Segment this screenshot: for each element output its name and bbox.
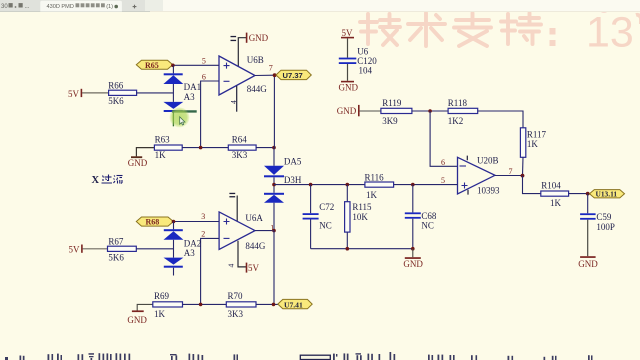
svg-text:13: 13 <box>586 9 634 57</box>
ground dashes above U6A (pin 8) <box>229 193 237 221</box>
svg-text:U7.37: U7.37 <box>283 71 303 80</box>
svg-text:R66: R66 <box>108 81 124 91</box>
ground GND (R119) <box>337 105 381 116</box>
capacitor C72 <box>303 185 335 249</box>
net label U7.41 <box>278 299 312 309</box>
svg-text:R70: R70 <box>228 291 244 301</box>
wire pin3 U6A <box>174 221 220 223</box>
wire R69-R70 <box>183 303 227 305</box>
junction node R70/U7.41/main bus <box>272 303 276 307</box>
svg-text:R67: R67 <box>108 236 124 246</box>
svg-text:R118: R118 <box>448 98 468 108</box>
resistor R67 <box>108 236 137 262</box>
svg-text:5V: 5V <box>69 245 81 255</box>
clipped schematic row at bottom edge <box>5 352 593 360</box>
svg-text:R117: R117 <box>527 129 547 139</box>
op-amp U6A <box>219 212 266 251</box>
resistor R115 (vertical) <box>345 185 372 249</box>
watermark 技术支持：13 <box>360 13 541 46</box>
svg-text:10393: 10393 <box>477 186 500 196</box>
svg-text:GND: GND <box>337 106 357 116</box>
wire bus D3H diode to U6A output <box>273 203 275 231</box>
power port 5V below U6A (pin 4) <box>227 241 260 273</box>
svg-text:U6A: U6A <box>245 213 263 223</box>
svg-text:6: 6 <box>441 158 445 167</box>
wire pin6 U20B from R119 junction <box>430 111 457 166</box>
svg-text:5V: 5V <box>342 28 354 38</box>
svg-text:5: 5 <box>202 57 206 66</box>
op-amp U20B <box>458 156 501 196</box>
svg-text:R64: R64 <box>232 135 248 145</box>
capacitor C59 <box>580 194 615 232</box>
power port 5V (C120) <box>341 28 354 57</box>
wire D3H net to U20B pin5 <box>274 184 365 186</box>
wire R64 to bus <box>256 147 274 149</box>
svg-text:1K2: 1K2 <box>448 116 464 126</box>
capacitor C68 <box>405 185 437 249</box>
resistor R119 <box>381 98 412 126</box>
junction node R69/R70/pin2 bus <box>199 303 203 307</box>
svg-text:A3: A3 <box>184 92 195 102</box>
diode DA2 (dual, A3) <box>164 222 202 276</box>
resistor R70 <box>226 291 256 319</box>
diode DA1 (dual, A3) <box>163 65 201 126</box>
svg-text:5K6: 5K6 <box>108 252 124 262</box>
power port 5V (R66) <box>68 89 109 99</box>
resistor R117 (vertical) <box>520 128 546 158</box>
svg-text:100P: 100P <box>596 222 615 232</box>
net label R65 <box>136 60 173 70</box>
wire R119-R118 <box>412 110 448 112</box>
junction node R64/main bus <box>272 146 276 150</box>
diode DA5 <box>264 156 302 177</box>
svg-text:5K6: 5K6 <box>108 96 124 106</box>
svg-text:3: 3 <box>201 212 205 221</box>
svg-text:10K: 10K <box>352 212 368 222</box>
svg-text:2: 2 <box>201 230 205 239</box>
resistor R69 <box>153 291 183 319</box>
wire R117 bottom to output node <box>522 157 525 175</box>
junction node R65/pin5 <box>171 64 175 68</box>
resistor R118 <box>448 98 478 126</box>
wire pin7 U20B output <box>495 175 523 177</box>
diode D3H lower (of DA5 pair) <box>264 193 284 203</box>
svg-text:C72: C72 <box>319 202 334 212</box>
wire R70 to U7.41 <box>256 303 278 305</box>
svg-text:R65: R65 <box>145 61 159 70</box>
wire R63-R64 <box>182 147 228 149</box>
svg-text:5V: 5V <box>68 89 80 99</box>
wire pin1 U6A output <box>255 230 274 232</box>
op-amp U6B <box>219 55 267 95</box>
svg-text:R69: R69 <box>154 291 170 301</box>
wire R104 to U13.11 <box>569 193 590 195</box>
svg-text:U7.41: U7.41 <box>284 300 303 309</box>
svg-text:1K: 1K <box>366 190 378 200</box>
ground GND (R63) <box>128 148 155 168</box>
svg-text:GND: GND <box>127 315 147 325</box>
junction node R115 bottom <box>346 247 350 251</box>
svg-text:GND: GND <box>128 158 148 168</box>
ground GND (C59) <box>578 220 598 270</box>
svg-text:4: 4 <box>227 264 236 268</box>
svg-text:5: 5 <box>441 176 445 185</box>
svg-text:30: 30 <box>1 4 8 10</box>
wire bottom rail C72-R115-C68 <box>311 248 413 250</box>
node D3H junction <box>273 177 275 193</box>
resistor R104 <box>541 181 569 208</box>
cursor highlight (green annotation line, circle + pointer) <box>170 107 197 127</box>
wire main bus U7.37 to R64 <box>273 75 275 147</box>
svg-text:U6B: U6B <box>247 55 264 65</box>
watermark clipped upper line tips <box>448 5 640 14</box>
wire U20B output down to R104 <box>523 176 541 194</box>
clipped component bar at bottom <box>300 355 330 359</box>
wire R67 to DA2 <box>136 248 173 250</box>
wire pin7 U6B output <box>255 74 275 76</box>
svg-text:3K3: 3K3 <box>228 309 244 319</box>
wire R66 to DA1 <box>137 92 174 94</box>
svg-text:1K: 1K <box>550 198 562 208</box>
svg-text:U20B: U20B <box>477 156 499 166</box>
wire pin5 U6B <box>173 64 219 66</box>
svg-text:3K9: 3K9 <box>382 116 398 126</box>
junction node C68 bottom/GND <box>411 247 415 251</box>
svg-text:5V: 5V <box>248 263 260 273</box>
svg-text:DA2: DA2 <box>184 238 202 248</box>
svg-text:844G: 844G <box>247 84 267 94</box>
svg-text:R104: R104 <box>541 181 561 191</box>
svg-text:GND: GND <box>403 259 423 269</box>
wire pin6 U6B + vertical bus <box>201 81 219 148</box>
browser tab bar <box>0 0 640 12</box>
power port 5V (R67) <box>69 245 108 255</box>
svg-text:GND: GND <box>249 33 269 43</box>
ground GND (R69) <box>127 304 152 325</box>
wire pin2 U6A + vertical bus <box>201 238 220 304</box>
svg-text:R116: R116 <box>365 173 385 183</box>
svg-text:1K: 1K <box>527 139 539 149</box>
svg-text:NC: NC <box>319 221 332 231</box>
wire bus R64 to DA5 <box>273 148 275 166</box>
ground GND (C120) <box>339 64 359 93</box>
svg-text:4: 4 <box>229 100 238 104</box>
wire bus U6A output to R70 <box>273 231 275 305</box>
junction node C72 top <box>309 183 313 187</box>
svg-text:GND: GND <box>578 259 598 269</box>
ground GND (C68 rail) <box>403 249 423 269</box>
resistor R64 <box>228 135 256 160</box>
text X过流 <box>92 175 123 187</box>
svg-text:C68: C68 <box>421 211 437 221</box>
svg-text:1: 1 <box>270 223 274 232</box>
svg-text:R119: R119 <box>382 98 402 108</box>
svg-text:U6: U6 <box>357 47 368 57</box>
U6B pin 4 stub <box>236 86 238 112</box>
svg-text:1K: 1K <box>155 150 167 160</box>
wire R118 to R117 top <box>478 111 523 128</box>
svg-text:A3: A3 <box>184 248 195 258</box>
svg-text:U13.11: U13.11 <box>596 190 618 199</box>
net label R68 <box>136 217 173 227</box>
svg-text:D3H: D3H <box>284 175 302 185</box>
svg-text:(1): (1) <box>106 4 113 10</box>
junction node U20B output/R117/R104 <box>521 174 525 178</box>
svg-text:844G: 844G <box>245 241 266 251</box>
resistor R63 <box>154 135 182 160</box>
net label U7.37 <box>273 70 312 80</box>
svg-text:NC: NC <box>421 221 434 231</box>
junction node R68/pin3 <box>172 220 176 224</box>
svg-text:GND: GND <box>339 83 359 93</box>
net label U13.11 <box>590 190 625 199</box>
resistor R66 <box>108 81 136 106</box>
ground GND above U6B (pin 8) <box>231 33 269 67</box>
svg-text:DA5: DA5 <box>284 156 302 166</box>
svg-text:104: 104 <box>359 65 373 75</box>
resistor R116 <box>365 173 394 201</box>
junction node R104/U13.11/C59 <box>586 192 590 196</box>
svg-text:...: ... <box>25 4 30 10</box>
svg-text:430D PMD: 430D PMD <box>47 4 74 10</box>
junction node U6A output/main bus <box>272 229 276 233</box>
svg-text:7: 7 <box>269 64 273 73</box>
capacitor C120 <box>339 47 377 76</box>
junction node C68 top <box>411 183 415 187</box>
svg-text:C59: C59 <box>596 212 612 222</box>
svg-text:R115: R115 <box>352 202 372 212</box>
svg-text:6: 6 <box>202 73 206 82</box>
svg-text:X: X <box>92 175 100 186</box>
svg-text:3K3: 3K3 <box>232 150 248 160</box>
junction node R119/R118/pin6 bus <box>428 109 432 113</box>
svg-text:DA1: DA1 <box>184 82 202 92</box>
svg-text:R63: R63 <box>155 135 171 145</box>
svg-text:1K: 1K <box>154 309 166 319</box>
svg-text:R68: R68 <box>146 218 160 227</box>
junction node R115 top <box>346 183 350 187</box>
svg-text:7: 7 <box>509 167 513 176</box>
junction node R63/R64/pin6 bus <box>199 146 203 150</box>
